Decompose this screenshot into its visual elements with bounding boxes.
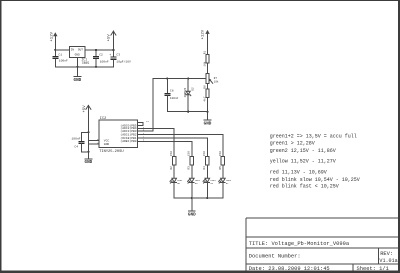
svg-text:IC2: IC2 — [100, 117, 106, 121]
resistor R3 — [188, 151, 194, 170]
node D2 bottom junction — [187, 111, 189, 113]
svg-text:150: 150 — [170, 151, 173, 156]
pin stub PB5 pair — [138, 123, 143, 126]
svg-text:4k7: 4k7 — [202, 96, 206, 101]
capacitor C4 — [71, 132, 84, 152]
svg-text:R6: R6 — [203, 85, 206, 89]
svg-text:GND: GND — [75, 54, 80, 57]
supply +5V P2 — [108, 31, 116, 50]
title block text — [249, 241, 398, 272]
svg-text:red 11,13V - 10,69V: red 11,13V - 10,69V — [270, 170, 327, 176]
node divider gnd junction — [206, 111, 208, 113]
wire R1 to trimmer — [207, 63, 209, 74]
wire rail to GND4 — [191, 198, 193, 211]
resistor R5 — [219, 151, 225, 170]
svg-text:green1 > 12,28V: green1 > 12,28V — [270, 141, 315, 147]
zener diode D2 — [184, 79, 195, 112]
wire PB2 to R5 column — [138, 135, 223, 157]
svg-text:100nF: 100nF — [170, 97, 179, 100]
node D2 top junction — [187, 77, 189, 79]
capacitor C1 — [52, 53, 68, 67]
wire trimmer wiper rail — [153, 78, 206, 80]
capacitor C3 electrolytic — [109, 49, 131, 67]
svg-text:R4: R4 — [203, 166, 206, 170]
svg-text:100nF: 100nF — [71, 137, 80, 140]
svg-text:C8: C8 — [170, 89, 174, 92]
svg-text:TINY25-20SU: TINY25-20SU — [99, 150, 123, 154]
svg-text:yellow 11,52V - 11,27V: yellow 11,52V - 11,27V — [270, 159, 336, 165]
node vcc branch — [87, 131, 89, 133]
ground GND1 — [74, 76, 82, 83]
wire C4 top branch — [81, 131, 88, 133]
resistor R1 — [202, 51, 209, 67]
LED LED2 — [188, 165, 201, 198]
svg-text:7805: 7805 — [82, 61, 90, 65]
svg-text:TITLE: Voltage_Pb-Monitor_V09: TITLE: Voltage_Pb-Monitor_V099a — [249, 241, 350, 247]
supply +12V P1 — [51, 31, 58, 41]
capacitor C8 — [164, 79, 178, 112]
svg-text:10k: 10k — [214, 79, 219, 83]
svg-text:green1+2 => 13,5V = accu full: green1+2 => 13,5V = accu full — [270, 133, 357, 139]
trimmer R7 — [206, 74, 219, 84]
node legend text — [270, 133, 360, 189]
wire PB4 to R2 column — [138, 128, 175, 156]
svg-text:(AREF)PB0: (AREF)PB0 — [120, 139, 136, 143]
svg-text:R5: R5 — [219, 166, 222, 170]
ground GND3 — [204, 120, 212, 127]
svg-text:150: 150 — [219, 151, 222, 156]
resistor R2 — [170, 151, 176, 170]
svg-text:C3: C3 — [116, 53, 120, 56]
svg-text:red blink slow 10,54V - 10,25V: red blink slow 10,54V - 10,25V — [270, 177, 360, 183]
ground GND4 — [188, 211, 196, 218]
svg-text:GND: GND — [85, 160, 93, 165]
title block frame — [246, 218, 399, 271]
wire bottom rail power — [55, 66, 113, 68]
svg-text:GND: GND — [204, 122, 212, 127]
voltage regulator IC1 7805 — [69, 47, 89, 65]
supply +5V P3 — [83, 105, 91, 113]
wire protection gnd rail — [167, 111, 207, 113]
resistor R4 — [203, 151, 209, 170]
wire +12V to R1 — [207, 34, 209, 55]
svg-text:GND: GND — [188, 212, 196, 217]
node LED rail junction A — [191, 197, 193, 199]
supply +12V P4 — [202, 29, 210, 39]
capacitor C2 — [93, 49, 109, 68]
wire PB0 to R3 column — [138, 141, 192, 156]
resistor R6 — [202, 85, 209, 102]
svg-text:R1: R1 — [203, 51, 206, 55]
svg-text:GND: GND — [104, 143, 110, 146]
wire R6 to ground — [207, 97, 209, 120]
svg-text:V1.01a: V1.01a — [379, 258, 397, 264]
svg-text:+: + — [109, 53, 111, 57]
svg-text:+5V: +5V — [108, 34, 112, 42]
wire C4 bottom branch — [81, 151, 88, 153]
ground GND2 — [85, 159, 93, 165]
wire LED gnd rail — [174, 197, 223, 199]
node C8 top junction — [166, 77, 168, 79]
wire PB3 to trimmer wiper — [138, 79, 154, 132]
svg-text:IN: IN — [71, 49, 75, 52]
LED LED4 — [219, 165, 232, 198]
node gnd rail junction — [76, 66, 78, 68]
svg-text:150: 150 — [203, 151, 206, 156]
svg-text:C1: C1 — [58, 53, 62, 56]
microcontroller IC2 TINY25-20SU — [99, 117, 138, 154]
wire input rail — [55, 49, 69, 51]
svg-text:+12V: +12V — [51, 31, 55, 41]
svg-text:(ADC1)PB2: (ADC1)PB2 — [120, 132, 136, 136]
svg-text:green2 12,15V - 11,86V: green2 12,15V - 11,86V — [270, 148, 336, 154]
node LED rail junction B — [206, 197, 208, 199]
svg-text:R2: R2 — [170, 166, 173, 170]
LED LED3 — [203, 165, 216, 198]
svg-text:R3: R3 — [188, 166, 191, 170]
wire +5V vcc drop — [87, 105, 89, 158]
wire output rail — [85, 49, 113, 51]
svg-text:red blink fast < 10,25V: red blink fast < 10,25V — [270, 183, 339, 189]
svg-text:C4: C4 — [74, 146, 78, 149]
svg-text:GND: GND — [74, 78, 82, 83]
wire trimmer to R6 — [207, 83, 209, 89]
svg-text:ZPD5V6: ZPD5V6 — [184, 87, 187, 97]
svg-text:OUT: OUT — [78, 49, 83, 52]
wire VCC stub — [88, 140, 99, 142]
svg-text:C2: C2 — [99, 53, 103, 56]
svg-text:+12V: +12V — [202, 29, 206, 39]
svg-text:150: 150 — [188, 151, 191, 156]
node input junction — [54, 49, 56, 51]
svg-text:10k: 10k — [202, 61, 206, 66]
svg-text:100nF: 100nF — [100, 61, 109, 64]
svg-text:10µF/16V: 10µF/16V — [116, 60, 131, 64]
node gnd branch — [87, 151, 89, 153]
LED LED1 — [170, 165, 183, 198]
svg-text:+5V: +5V — [83, 105, 87, 113]
pin numbers — [97, 120, 149, 144]
wire GND stub — [88, 143, 99, 145]
wire PB1 to R4 column — [138, 138, 208, 157]
svg-text:REV:: REV: — [380, 251, 393, 257]
wire +12V to rail — [54, 36, 56, 56]
svg-text:D2: D2 — [191, 87, 194, 91]
svg-text:100nF: 100nF — [59, 60, 68, 63]
svg-text:Document Number:: Document Number: — [249, 254, 301, 260]
wire IC1 gnd drop — [76, 58, 78, 77]
